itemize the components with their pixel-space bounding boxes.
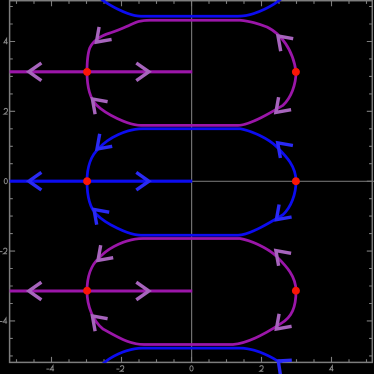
horizontal trajectory row mpi: [10, 289, 193, 292]
shoulder arrow pi LL: [92, 99, 107, 114]
left arrow row zero: [29, 172, 42, 190]
y axis gray vertical line x=0: [191, 1, 193, 363]
trajectory: stadium separatrix row pi: [87, 20, 296, 72]
shoulder arrow mpi LL: [92, 316, 107, 331]
right arrow row mpi: [136, 282, 149, 300]
x axis gray horizontal line y=0: [10, 180, 374, 182]
x axis tick labels: [46, 368, 49, 370]
shoulder arrow mpi UR: [276, 251, 291, 266]
left arrow row mpi: [29, 282, 42, 300]
right arrow row pi: [136, 63, 149, 81]
left arrow row pi: [29, 63, 42, 81]
shoulder arrow pi LR: [276, 97, 291, 112]
horizontal trajectory row zero: [10, 180, 193, 183]
y axis tick labels: [0, 321, 3, 323]
shoulder arrow mpi UL: [98, 245, 113, 260]
horizontal trajectory row pi: [10, 70, 193, 73]
right arrow row zero: [136, 172, 149, 190]
shoulder arrow zero UR: [278, 143, 293, 158]
shoulder arrow mpi LR: [276, 314, 291, 329]
equilibrium points (red dots): [83, 68, 91, 76]
shoulder arrow zero UL: [97, 134, 112, 149]
arrow on y=-2pi arc (up-left): [278, 360, 292, 374]
shoulder arrow zero LR: [276, 205, 291, 220]
shoulder arrow zero LL: [94, 210, 109, 225]
shoulder arrow pi UL: [96, 27, 111, 42]
trajectory: blue heteroclinic arc row y=2pi (bottom half visible at top edge): [87, 0, 296, 16]
shoulder arrow pi UR: [278, 36, 293, 51]
trajectory: stadium separatrix row zero: [87, 129, 296, 182]
trajectory: stadium separatrix row mpi: [87, 239, 296, 292]
